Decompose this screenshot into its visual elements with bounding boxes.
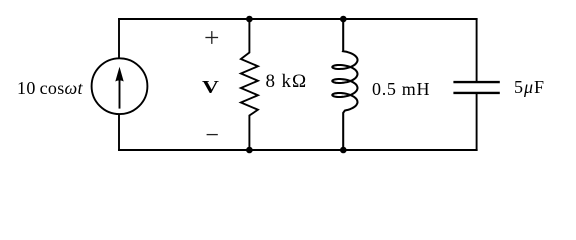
label resistor value 8 kohm [266,71,307,93]
label voltage V [202,77,219,98]
capacitor C bottom plate [453,92,499,94]
plus sign polarity mark [205,31,218,44]
wire right lower segment [476,94,478,151]
current source I1 arrow shaft [119,80,121,109]
wire left upper segment [118,18,120,58]
wire top rail [118,18,478,20]
wire right upper segment [476,18,478,81]
minus sign polarity mark [207,134,218,136]
label capacitor value 5uF [514,77,545,98]
wire bottom rail [118,149,478,151]
label source value 10 cos wt [17,78,83,99]
current source I1 circle [92,58,148,114]
wire left lower segment [118,114,120,151]
junction dot top inductor node [340,16,347,23]
junction dot bottom inductor node [340,147,347,154]
inductor L 0.5mH coil [332,21,357,148]
label inductor value 0.5 mH [372,79,430,100]
capacitor C top plate [453,81,499,83]
resistor R 8kohm zigzag [241,21,258,148]
current source I1 arrowhead [115,67,123,82]
junction dot bottom resistor node [246,147,253,154]
junction dot top resistor node [246,16,253,23]
